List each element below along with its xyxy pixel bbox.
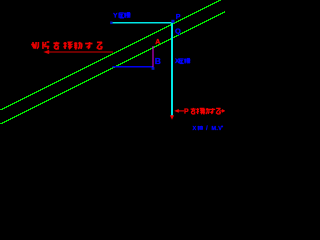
svg-text:A: A bbox=[155, 39, 160, 46]
svg-text:Y: Y bbox=[113, 12, 118, 19]
svg-text:B: B bbox=[155, 56, 161, 66]
svg-text:M.V: M.V bbox=[212, 126, 223, 132]
svg-text:P: P bbox=[176, 14, 181, 21]
svg-text:P: P bbox=[184, 109, 189, 116]
svg-text:X: X bbox=[193, 126, 197, 132]
svg-text:Q: Q bbox=[175, 26, 181, 35]
